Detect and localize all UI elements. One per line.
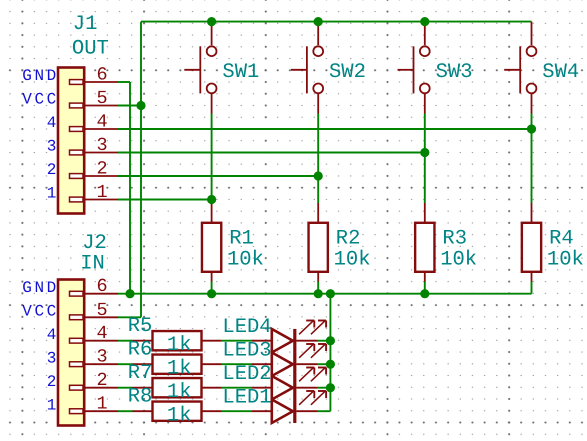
junction at 330.4,364.2 — [326, 360, 335, 369]
svg-text:5: 5 — [96, 88, 107, 109]
wire J2 row to R7 — [118, 387, 133, 389]
resistor R6 — [133, 355, 222, 374]
LED4 reference label — [222, 316, 271, 339]
R8 reference label — [128, 386, 153, 409]
svg-text:VCC: VCC — [22, 302, 59, 320]
svg-text:GND: GND — [22, 67, 59, 85]
wire SW4 bottom to row — [531, 114, 533, 130]
wire J1 row 1 to SW column — [118, 199, 212, 201]
switch SW2 — [291, 22, 323, 114]
R7 value label 1k — [167, 381, 192, 404]
svg-text:2: 2 — [47, 373, 59, 391]
svg-text:LED2: LED2 — [222, 363, 271, 386]
junction at 330.4,340.7 — [326, 336, 335, 345]
svg-text:4: 4 — [96, 323, 107, 344]
svg-text:R6: R6 — [128, 339, 153, 362]
svg-text:LED3: LED3 — [222, 340, 271, 363]
junction at 318.2,21.6 — [314, 17, 323, 26]
svg-text:R3: R3 — [442, 228, 467, 251]
wire R4 bottom to GND bus — [531, 281, 533, 293]
svg-text:4: 4 — [96, 112, 107, 133]
svg-text:GND: GND — [22, 279, 59, 297]
svg-text:IN: IN — [80, 253, 105, 276]
svg-text:1: 1 — [47, 185, 59, 203]
J1 pin 6 (GND) — [22, 65, 118, 86]
svg-text:3: 3 — [47, 138, 59, 156]
svg-text:10k: 10k — [227, 248, 264, 271]
SW3 reference label — [436, 61, 473, 84]
svg-text:LED4: LED4 — [222, 316, 271, 339]
wire R1 bottom to GND bus — [211, 281, 213, 293]
svg-text:2: 2 — [96, 370, 107, 391]
switch SW3 — [398, 22, 430, 114]
wire LED2 cathode to rail — [318, 387, 331, 389]
svg-text:OUT: OUT — [72, 37, 109, 60]
wire J1 row 3 to SW column — [118, 152, 425, 154]
wire J1 row 2 to SW column — [118, 175, 318, 177]
resistor R2 — [309, 203, 328, 282]
R8 value label 1k — [167, 405, 192, 428]
resistor R7 — [133, 378, 222, 397]
J1 pin 5 (VCC) — [22, 88, 118, 109]
wire R7 to LED2 anode — [222, 387, 252, 389]
svg-text:R1: R1 — [229, 228, 254, 251]
junction at 211.6,21.6 — [207, 17, 216, 26]
J2 value label IN — [80, 253, 105, 276]
resistor R8 — [133, 402, 222, 421]
J2 pin 3 (3) — [47, 347, 118, 368]
switch SW4 — [504, 22, 536, 114]
svg-text:10k: 10k — [334, 248, 371, 271]
wire R8 to LED1 anode — [222, 410, 252, 412]
junction at 330.4,293.7 — [326, 289, 335, 298]
svg-text:LED1: LED1 — [222, 387, 271, 410]
J1 reference label — [73, 13, 98, 36]
svg-text:R7: R7 — [128, 362, 153, 385]
R6 reference label — [128, 339, 153, 362]
wire VCC vertical rail — [140, 22, 142, 318]
wire LED cathode rail — [329, 294, 331, 412]
R5 value label 1k — [167, 334, 192, 357]
svg-text:3: 3 — [96, 135, 107, 156]
wire J2 row to R6 — [118, 363, 133, 365]
J2 pin 4 (4) — [47, 323, 118, 344]
R3 value label 10k — [440, 248, 477, 271]
J1 pin 3 (3) — [47, 135, 118, 156]
svg-text:3: 3 — [96, 347, 107, 368]
svg-text:2: 2 — [47, 161, 59, 179]
R1 value label 10k — [227, 248, 264, 271]
wire row to R3 top — [424, 153, 426, 204]
junction at 211.6,199.5 — [207, 195, 216, 204]
J1 pin 1 (1) — [47, 182, 118, 203]
J2 pin 5 (VCC) — [22, 300, 118, 321]
svg-text:6: 6 — [96, 276, 107, 297]
LED LED4 — [251, 321, 326, 353]
LED3 reference label — [222, 340, 271, 363]
junction at 424.8,152.5 — [420, 148, 429, 157]
junction at 531.5,129.0 — [527, 124, 536, 133]
svg-text:J2: J2 — [82, 232, 107, 255]
wire SW1 bottom to row — [211, 114, 213, 200]
wire row to R4 top — [531, 129, 533, 203]
wire LED4 cathode to rail — [318, 340, 331, 342]
R5 reference label — [128, 315, 153, 338]
SW2 reference label — [329, 61, 366, 84]
wire GND rail from J1 pin 6 — [118, 81, 130, 83]
svg-text:3: 3 — [47, 349, 59, 367]
LED1 reference label — [222, 387, 271, 410]
LED LED1 — [251, 391, 326, 423]
junction at 211.6,293.7 — [207, 289, 216, 298]
svg-text:10k: 10k — [440, 248, 477, 271]
wire SW2 bottom to row — [317, 114, 319, 177]
R6 value label 1k — [167, 358, 192, 381]
svg-text:SW4: SW4 — [542, 61, 579, 84]
R2 value label 10k — [334, 248, 371, 271]
svg-text:R4: R4 — [549, 228, 574, 251]
wire J2 row to R8 — [118, 410, 133, 412]
wire rail to LED1 cathode — [318, 410, 331, 412]
svg-text:SW3: SW3 — [436, 61, 473, 84]
junction at 141.0,105.5 — [136, 101, 145, 110]
resistor R3 — [415, 203, 434, 282]
wire VCC to J2 pin 5 — [118, 316, 141, 318]
svg-text:1k: 1k — [167, 405, 192, 428]
wire GND bus row — [118, 293, 532, 295]
svg-text:1: 1 — [96, 182, 107, 203]
SW4 reference label — [542, 61, 579, 84]
resistor R5 — [133, 331, 222, 350]
wire R5 to LED4 anode — [222, 340, 252, 342]
junction at 318.2,176.0 — [314, 171, 323, 180]
wire VCC top bus — [141, 21, 532, 23]
svg-text:1: 1 — [96, 394, 107, 415]
switch SW1 — [184, 22, 216, 114]
wire R2 bottom to GND bus — [317, 281, 319, 293]
svg-text:1: 1 — [47, 396, 59, 414]
svg-text:6: 6 — [96, 65, 107, 86]
junction at 424.8,21.6 — [420, 17, 429, 26]
svg-text:R8: R8 — [128, 386, 153, 409]
R2 reference label — [336, 228, 361, 251]
J2 reference label — [82, 232, 107, 255]
junction at 424.8,293.7 — [420, 289, 429, 298]
wire row to R2 top — [317, 176, 319, 203]
J2 pin 1 (1) — [47, 394, 118, 415]
svg-text:4: 4 — [47, 114, 59, 132]
J1 pin 2 (2) — [47, 159, 118, 180]
junction at 318.2,293.7 — [314, 289, 323, 298]
LED LED3 — [251, 344, 326, 376]
svg-text:10k: 10k — [547, 248, 584, 271]
wire GND vertical rail — [129, 82, 131, 294]
wire J2 row to R5 — [118, 340, 133, 342]
wire R6 to LED3 anode — [222, 363, 252, 365]
connector J1 body — [58, 68, 84, 214]
LED LED2 — [251, 368, 326, 400]
R7 reference label — [128, 362, 153, 385]
svg-text:SW1: SW1 — [222, 61, 259, 84]
R4 reference label — [549, 228, 574, 251]
svg-text:R2: R2 — [336, 228, 361, 251]
wire J1 pin 5 to VCC rail — [118, 105, 141, 107]
wire LED3 cathode to rail — [318, 363, 331, 365]
svg-text:SW2: SW2 — [329, 61, 366, 84]
wire R3 bottom to GND bus — [424, 281, 426, 293]
junction at 130.0,293.7 — [125, 289, 134, 298]
SW1 reference label — [222, 61, 259, 84]
wire J1 row 4 to SW column — [118, 128, 532, 130]
svg-text:2: 2 — [96, 159, 107, 180]
J1 value label OUT — [72, 37, 109, 60]
svg-text:VCC: VCC — [22, 91, 59, 109]
svg-text:J1: J1 — [73, 13, 98, 36]
J2 pin 6 (GND) — [22, 276, 118, 297]
svg-text:R5: R5 — [128, 315, 153, 338]
R3 reference label — [442, 228, 467, 251]
R1 reference label — [229, 228, 254, 251]
wire SW3 bottom to row — [424, 114, 426, 153]
resistor R1 — [202, 203, 221, 282]
wire row to R1 top — [211, 200, 213, 204]
J1 pin 4 (4) — [47, 112, 118, 133]
resistor R4 — [522, 203, 541, 282]
svg-text:5: 5 — [96, 300, 107, 321]
R4 value label 10k — [547, 248, 584, 271]
LED2 reference label — [222, 363, 271, 386]
J2 pin 2 (2) — [47, 370, 118, 391]
svg-text:4: 4 — [47, 326, 59, 344]
junction at 330.4,387.7 — [326, 383, 335, 392]
connector J2 body — [58, 280, 84, 426]
